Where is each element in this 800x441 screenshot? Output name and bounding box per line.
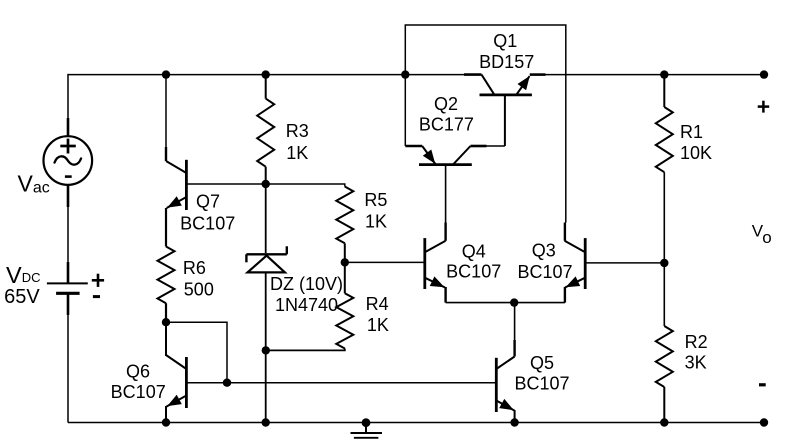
zener diode DZ: [265, 184, 267, 253]
wire Q6 emitter to bottom rail: [165, 406, 167, 423]
battery VDC 65V: [47, 282, 88, 284]
svg-text:1K: 1K: [286, 143, 308, 163]
terminal + dot: [760, 70, 768, 78]
svg-text:3K: 3K: [685, 353, 707, 373]
svg-text:BD157: BD157: [479, 52, 534, 72]
svg-text:1N4740: 1N4740: [275, 295, 338, 315]
wire battery to bottom rail: [67, 293, 70, 315]
svg-text:Q5: Q5: [530, 353, 554, 373]
wire node to R5: [266, 184, 345, 187]
label - output: [759, 383, 766, 386]
wire Vac to battery: [67, 185, 70, 207]
wire Q7 emitter to R6: [165, 208, 167, 247]
svg-text:500: 500: [184, 279, 214, 299]
svg-text:Q6: Q6: [126, 362, 150, 382]
node zener branch / bottom rail: [262, 418, 270, 426]
resistor R6: [158, 247, 175, 304]
resistor R3: [265, 75, 267, 99]
node ground junction: [362, 418, 371, 427]
node R3 / zener / Q7 base / R5: [262, 180, 270, 188]
svg-text:R6: R6: [183, 258, 206, 278]
resistor R5: [336, 187, 353, 244]
wire Q4 base: [345, 261, 425, 263]
svg-text:BC177: BC177: [419, 115, 474, 135]
wire Q7 collector: [165, 75, 167, 149]
svg-text:Vac: Vac: [18, 171, 50, 197]
svg-text:BC107: BC107: [514, 374, 569, 394]
svg-text:R1: R1: [680, 122, 703, 142]
ground symbol: [365, 423, 367, 433]
svg-text:R2: R2: [685, 332, 708, 352]
svg-text:BC107: BC107: [517, 262, 572, 282]
svg-text:Vo: Vo: [752, 221, 772, 247]
node R2 / bottom rail: [660, 418, 668, 426]
node top rail / bootstrap / Q2 emitter: [401, 70, 409, 78]
svg-text:Q4: Q4: [462, 242, 486, 262]
svg-text:BC107: BC107: [180, 214, 235, 234]
transistor Q4: [423, 238, 426, 289]
svg-text:Q2: Q2: [434, 94, 458, 114]
node top rail / R1: [660, 70, 668, 78]
terminal - dot: [760, 418, 768, 426]
transistor Q3: [584, 238, 587, 289]
svg-text:Q3: Q3: [532, 241, 556, 261]
svg-text:BC107: BC107: [111, 382, 166, 402]
wire Q2 base to Q4 collector: [445, 165, 447, 224]
node R1 / R2 / Q3 base: [660, 259, 668, 267]
transistor Q6: [185, 357, 188, 408]
node top rail / Q7 branch: [162, 70, 170, 78]
wire Q3 collector lead: [564, 223, 566, 241]
AC source Vac: [44, 136, 93, 185]
svg-text:VDC: VDC: [6, 262, 40, 288]
resistor R1: [663, 75, 665, 107]
wire Q6 collector: [165, 322, 167, 356]
svg-text:BC107: BC107: [446, 262, 501, 282]
svg-text:Q1: Q1: [493, 31, 517, 51]
label + output: [758, 105, 770, 108]
wire emitter join: [446, 302, 565, 304]
wire bottom rail: [68, 422, 764, 424]
resistor R4: [344, 262, 346, 293]
node zener branch / R4 return: [262, 346, 270, 354]
wire Q5 collector: [514, 303, 516, 342]
transistor Q1 BD157: [464, 73, 482, 76]
wire Q3 base: [585, 262, 664, 264]
wire top output rail: [530, 74, 764, 76]
node top rail / R3: [262, 70, 270, 78]
svg-text:DZ (10V): DZ (10V): [270, 274, 343, 294]
wire zener to bottom rail: [265, 272, 267, 422]
svg-text:Q7: Q7: [196, 192, 220, 212]
node R6 / Q6 collector: [162, 318, 170, 326]
svg-text:R5: R5: [364, 190, 387, 210]
node Q6 emitter / bottom rail: [162, 418, 170, 426]
svg-text:10K: 10K: [680, 143, 712, 163]
wire Q6/Q5 base line: [186, 382, 496, 384]
svg-text:R3: R3: [286, 121, 309, 141]
node Q5 emitter / bottom rail: [510, 418, 518, 426]
resistor R2: [663, 263, 665, 326]
transistor Q2 BC177: [405, 145, 422, 148]
node R5 / R4 / Q4 base: [341, 258, 349, 266]
wire R6 node to Q6 base (L): [166, 322, 227, 383]
transistor Q5: [495, 358, 498, 412]
node emitters / Q5 collector: [510, 298, 518, 306]
svg-text:1K: 1K: [365, 212, 387, 232]
wire Q2 collector to Q1 base: [504, 95, 506, 146]
node Q6 base / L-wire: [223, 379, 231, 387]
wire bootstrap loop: [405, 25, 566, 223]
transistor Q7: [185, 160, 188, 210]
wire Q7 base to node: [186, 183, 265, 185]
svg-text:1K: 1K: [367, 315, 389, 335]
wire left source branch top: [67, 74, 69, 120]
svg-text:65V: 65V: [4, 286, 40, 308]
wire top input rail: [68, 74, 464, 76]
svg-text:R4: R4: [366, 294, 389, 314]
